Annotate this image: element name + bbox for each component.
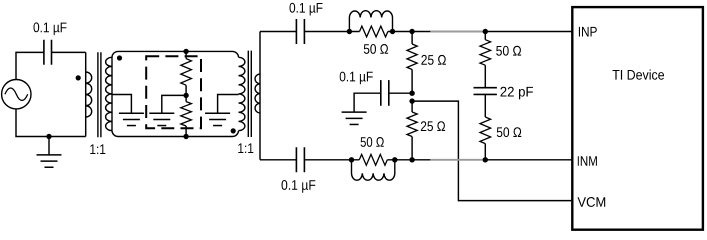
wire C3 right [389,92,412,94]
wire top-left loop [16,52,86,79]
pin label INP [579,27,597,37]
label R2 25 ohm [421,55,446,65]
resistor R2 25ohm leads [411,32,413,94]
AC source V1 circle [2,80,31,109]
junction dot mid-bottom [183,134,188,139]
junction dot L1 left [347,29,352,34]
resistor R2 25ohm [407,44,417,70]
wire T2 primary center tap [218,95,239,114]
wire R1 leads [349,31,392,33]
phase dot T2 primary [231,128,236,133]
wire bottom node segment [395,159,431,161]
label C3 0.1 uF [340,72,373,85]
wire T1 secondary center tap [112,95,131,114]
label R5 50 ohm [496,46,521,56]
resistor R6 50ohm [480,117,491,144]
wire bottom branch to C4 [260,159,352,161]
dashed optional box [146,56,201,128]
junction dot 25ohm top [409,29,414,34]
ground G1 bars [37,155,62,167]
junction dot L1 right [390,29,395,34]
junction dot L2 left [349,157,354,162]
resistor R3 25ohm leads [411,101,413,160]
resistor R5 50ohm [480,40,491,65]
transformer T1 primary humps [86,72,92,117]
inductor L2 [352,160,395,180]
transformer T1 primary axis wire [85,52,87,136]
ground G2 bars [119,113,144,125]
label C1 0.1 uF [34,22,67,35]
resistor R6 50ohm leads [484,94,486,159]
ground G4 bars [205,113,230,125]
junction dot L2 right [392,157,397,162]
junction dot node lower [409,98,414,103]
label T2 ratio 1:1 [238,143,253,153]
resistor divider upper [185,51,187,95]
capacitor C2 plates [296,19,304,44]
capacitor C1 plates [44,40,52,65]
transformer T2 secondary axis wire [259,32,261,160]
label R3 25 ohm [421,121,445,131]
label C2 0.1 uF [290,3,323,16]
label T1 ratio 1:1 [90,144,105,154]
label TI Device [613,70,665,80]
wire VCM [412,101,572,201]
inductor L1 [349,11,392,32]
wire gray segment top [430,31,485,33]
label C5 22 pF [501,87,534,100]
wire top branch to C2 [260,31,349,33]
junction dot mid-center [183,93,188,98]
phase dot T1 secondary [117,55,122,60]
label R6 50 ohm [497,127,522,137]
wire gray segment bottom [430,159,485,161]
junction dot shunt bottom [483,157,488,162]
ground G1 stem [48,137,50,155]
wire top node segment [393,31,431,33]
capacitor C3 plates [381,80,389,106]
resistor R4 50ohm [359,154,387,165]
label C4 0.1 uF [282,180,316,193]
capacitor C4 plates [296,147,304,172]
AC source sine wave [5,88,28,100]
resistor R5 50ohm leads [484,32,486,88]
wire R4 leads [352,159,395,161]
phase dot T1 primary [76,75,81,80]
TI device box U1 [572,7,703,230]
capacitor C5 22pF plates [474,88,497,95]
label R4 50 ohm [361,137,384,147]
resistor R3 25ohm [407,112,417,137]
junction dot mid-top [183,49,188,54]
pin label VCM [578,197,606,207]
ground G5 bars [342,112,367,124]
transformer T2 core lines [248,51,251,137]
pin label INM [578,156,597,166]
junction dot 25ohm bottom [409,157,414,162]
resistor R1 50ohm [360,26,388,37]
transformer T2 secondary humps [255,74,260,113]
transformer T1 core lines [98,52,101,137]
wire C3 left to ground [354,93,381,112]
wire INM [485,159,572,161]
junction dot shunt top [483,29,488,34]
label R1 50 ohm [364,44,388,54]
resistor divider lower [185,95,187,136]
middle section wires + T1 secondary + T2 primary windings [106,57,112,130]
wire source bottom [16,109,86,137]
junction dot node upper [409,91,414,96]
wire INP [485,31,572,33]
wire divider tap to ground [162,95,186,113]
ground G3 bars [149,113,174,125]
junction dot source ground [46,134,51,139]
